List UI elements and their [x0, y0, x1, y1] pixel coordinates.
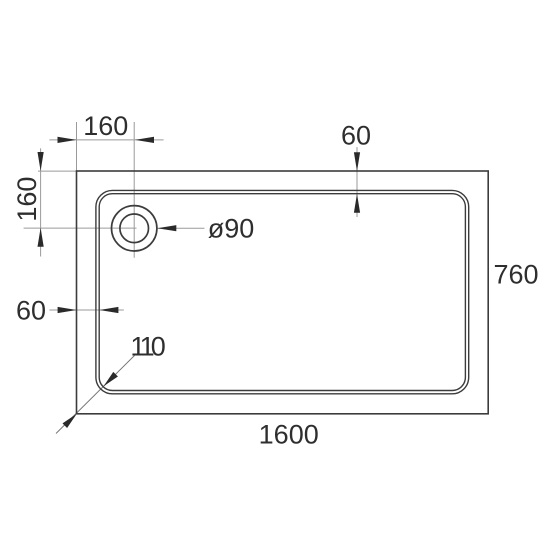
svg-text:1600: 1600: [259, 419, 319, 449]
dimension line 160 left: [40, 148, 42, 256]
dimension line 60 left: [49, 309, 123, 311]
leader line 110 diagonal: [56, 356, 135, 434]
svg-text:760: 760: [493, 260, 538, 290]
arrow 110 at basin corner arc: [104, 372, 118, 386]
dimension line 160 top: [49, 139, 163, 141]
svg-text:110: 110: [130, 331, 165, 361]
basin rim inner line: [99, 194, 465, 391]
arrow 60 top upper: [354, 152, 360, 171]
arrow o90: [157, 225, 176, 231]
svg-text:60: 60: [16, 295, 46, 325]
centerline vertical through drain: [133, 122, 135, 258]
dimension line 60 top: [356, 147, 358, 217]
arrow 160 top left: [58, 137, 77, 143]
svg-text:160: 160: [12, 177, 42, 222]
svg-text:160: 160: [83, 111, 128, 141]
arrow 60 left pointing left: [99, 307, 118, 313]
arrow 110 at tray corner: [63, 414, 77, 428]
arrow 160 left lower: [38, 228, 44, 247]
svg-text:60: 60: [341, 120, 371, 150]
drain inner circle: [120, 214, 149, 243]
arrow 160 top right: [135, 137, 154, 143]
arrow 60 left pointing right: [58, 307, 77, 313]
leader line o90: [158, 227, 205, 229]
basin rim outer line: [96, 190, 469, 393]
arrow 60 top lower: [354, 194, 360, 213]
centerline horizontal through drain: [24, 227, 137, 229]
extension line left edge extended above tray: [76, 122, 78, 171]
arrow 160 left upper: [38, 152, 44, 171]
extension line top edge extended left of tray: [38, 170, 77, 172]
drain outer circle: [112, 206, 157, 251]
outer tray rectangle: [77, 171, 489, 414]
svg-text:ø90: ø90: [208, 214, 255, 244]
